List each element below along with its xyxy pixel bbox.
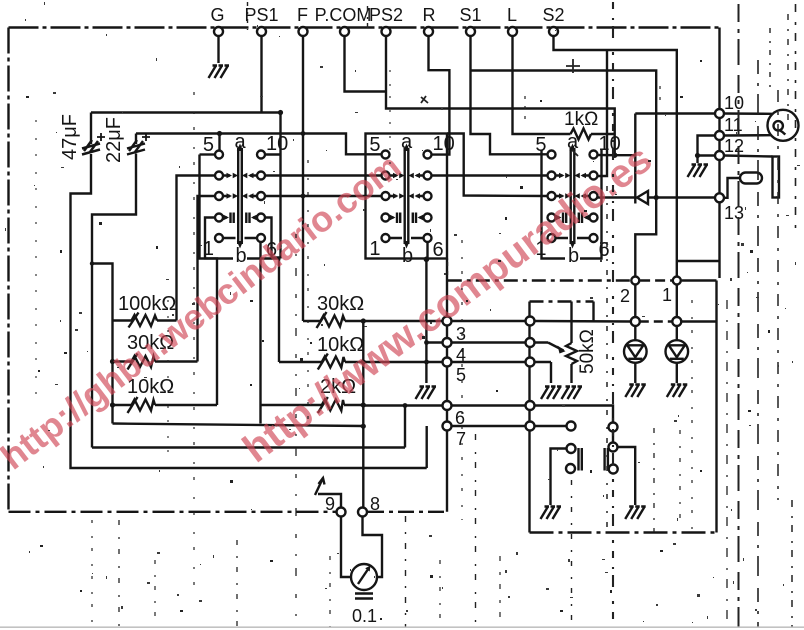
svg-text:R: R <box>423 5 436 25</box>
enclosure left edge <box>528 302 530 533</box>
ground LED1 <box>667 385 688 398</box>
30k-left row <box>113 360 198 362</box>
circles on terminal3 wire <box>631 317 640 326</box>
rotary switch wafer 3 <box>535 131 620 267</box>
block2 ground drop <box>425 259 427 383</box>
left common node jog to resistor column <box>92 264 113 424</box>
switch contacts open circles <box>567 422 576 431</box>
wire B : 22uF top to F <box>136 132 303 134</box>
left column bottom wire <box>113 424 364 427</box>
2k to terminal6 and drop <box>363 404 442 406</box>
terminal7 row right <box>452 425 567 427</box>
resistor 1k zigzag <box>571 129 592 140</box>
svg-text:F: F <box>297 5 308 25</box>
bottom scanner edge <box>0 626 804 628</box>
svg-text:3: 3 <box>456 324 466 344</box>
svg-text:PS1: PS1 <box>244 5 278 25</box>
capacitor 22uF plates <box>127 140 145 155</box>
grounds middle row <box>416 387 437 400</box>
enclosure feedthrough circles <box>526 317 535 326</box>
capacitor 22uF plus <box>142 133 150 141</box>
svg-text:47μF: 47μF <box>59 114 81 160</box>
svg-text:11: 11 <box>724 115 743 135</box>
22uF leads <box>92 134 136 448</box>
right side terminals 10-13 <box>715 109 724 118</box>
switch block S1a frame <box>200 155 281 259</box>
10k-left row <box>113 404 218 406</box>
switch block S1c frame <box>542 150 602 259</box>
top terminals <box>214 27 223 36</box>
top dash-dot border rail <box>9 26 723 28</box>
svg-text:10: 10 <box>724 93 744 113</box>
terminal PS1 drop to wire A <box>260 36 262 113</box>
svg-text:5: 5 <box>456 365 466 385</box>
terminal3 row <box>452 320 631 323</box>
svg-text:8: 8 <box>370 494 380 514</box>
terminal L drop to 1k wire <box>513 36 571 134</box>
block1 row3 left to 30k <box>198 196 216 362</box>
svg-text:S1: S1 <box>459 5 481 25</box>
block1 row2 left to 100k <box>177 176 216 321</box>
terminals 11,12 to ground <box>698 136 716 164</box>
terminal4 row <box>427 341 549 343</box>
enclosure top dash-dot line <box>448 279 631 281</box>
svg-text:6: 6 <box>455 408 465 428</box>
resistor 100k zigzag <box>132 315 158 326</box>
bottom dash between terminals 8 and corner <box>368 511 447 513</box>
svg-text:0.1: 0.1 <box>352 606 377 626</box>
terminal F drop to wire B <box>302 36 304 134</box>
resistor 2k zigzag <box>322 400 344 411</box>
bottom-left long wire y=447.5 <box>92 446 405 448</box>
svg-text:2: 2 <box>620 286 630 306</box>
svg-text:L: L <box>507 5 517 25</box>
svg-text:G: G <box>210 5 224 25</box>
jack J1 left <box>551 444 582 505</box>
svg-text:13: 13 <box>724 203 744 223</box>
row2 long wire block1-block2 <box>264 174 382 176</box>
resistor 10k-left zigzag <box>132 400 156 411</box>
bottom dash-dot border left part <box>9 511 337 513</box>
terminal P.COM drop <box>345 36 387 92</box>
F line down to 30k-mid <box>302 134 304 322</box>
diode D1 <box>598 114 716 205</box>
terminal5 row <box>443 361 552 363</box>
resistor 30k-mid zigzag <box>321 316 346 327</box>
block1 row1 connections <box>218 134 220 151</box>
enclosure bottom dash-dot <box>530 531 717 533</box>
meter M <box>351 564 377 590</box>
F jog wire to block2 pin 5 <box>303 134 382 155</box>
resistor 30k-left zigzag <box>132 356 156 367</box>
earphone B <box>768 110 799 141</box>
10k-mid row <box>279 361 443 363</box>
terminal7 riser from 447.5 wire <box>426 426 428 468</box>
terminal PS2 drop and run to right <box>386 36 615 155</box>
svg-text:4: 4 <box>456 345 466 365</box>
terminal 9 to meter left lead <box>341 517 351 578</box>
svg-text:PS2: PS2 <box>369 5 403 25</box>
svg-text:9: 9 <box>325 494 335 514</box>
S1 branch long wire to diode node <box>471 71 657 277</box>
svg-text:22μF: 22μF <box>103 117 125 163</box>
LED column 2 <box>634 285 636 384</box>
right border <box>718 28 720 279</box>
terminal G stub <box>217 36 219 63</box>
pot box right mini edge <box>592 302 594 322</box>
row2 wire block2-block3 <box>432 174 548 176</box>
resistor 10k-mid zigzag <box>322 357 345 368</box>
S2 branch to block3 row2R <box>598 50 608 176</box>
rotary switch wafer 2 <box>369 131 454 267</box>
pot box top dash <box>530 300 594 302</box>
capacitor 0.1 under meter <box>355 594 373 599</box>
47uF leads <box>71 113 427 469</box>
wire column1 to right border <box>677 260 719 262</box>
terminal6 row right <box>452 406 614 423</box>
svg-text:50kΩ: 50kΩ <box>577 329 598 374</box>
bus terminals 3-7 <box>443 317 452 326</box>
ground near 12 <box>688 165 709 178</box>
small plus noise marks <box>421 59 580 156</box>
svg-text:7: 7 <box>456 429 466 449</box>
terminal S1 drop <box>471 36 548 154</box>
block3 row1R to node dot <box>598 154 636 157</box>
LED column 1 <box>676 285 678 384</box>
capacitor 47uF plates <box>82 140 100 155</box>
terminal 8 to meter right lead <box>363 517 383 578</box>
left dash-dot border <box>7 28 9 511</box>
terminals 9 and 8 <box>337 508 346 517</box>
ground LED2 <box>625 385 646 398</box>
100k row <box>113 319 177 321</box>
wire A : 47uF top to block1 right edge <box>91 111 281 113</box>
svg-text:P.COM: P.COM <box>315 5 372 25</box>
2k row <box>261 404 364 406</box>
terminal 10 wire to earphone <box>635 114 772 136</box>
terminal R drop to block2 pin10 <box>429 36 450 155</box>
block1 row4 right jog to 10k-mid <box>265 218 279 363</box>
svg-text:1: 1 <box>662 285 672 305</box>
30k-mid row <box>303 320 443 322</box>
bus vertical <box>446 259 448 512</box>
terminal 9 hook and mark <box>318 494 341 508</box>
enclosure dash-dot lines <box>448 281 717 533</box>
switch block S1b frame <box>366 134 448 259</box>
svg-text:1kΩ: 1kΩ <box>564 109 598 130</box>
middle junction column <box>362 321 364 508</box>
LED lamp 1 <box>666 340 689 363</box>
terminal S2 drop and long wire <box>554 36 677 277</box>
capacitor 47uF plus <box>97 133 105 141</box>
jack J2 right <box>605 432 636 506</box>
svg-text:S2: S2 <box>542 5 564 25</box>
1k right wire <box>591 133 615 135</box>
row3 wire block1-block2 <box>264 195 382 197</box>
svg-text:12: 12 <box>724 136 744 156</box>
svg-text:30kΩ: 30kΩ <box>317 293 364 315</box>
terminals 2 and 1 <box>631 277 639 285</box>
ground under G <box>209 66 230 79</box>
block1 row4 left jog to 10k <box>205 218 217 406</box>
potentiometer 50k <box>548 302 577 384</box>
rotary switch wafer 1 <box>203 131 288 267</box>
key lever with knob <box>724 173 762 198</box>
block1 pin6 drop to 2k <box>259 242 261 424</box>
block2 a-wire to block3 row3L <box>447 134 548 197</box>
key fixed plate <box>724 156 779 198</box>
LED lamp 2 <box>624 340 647 363</box>
